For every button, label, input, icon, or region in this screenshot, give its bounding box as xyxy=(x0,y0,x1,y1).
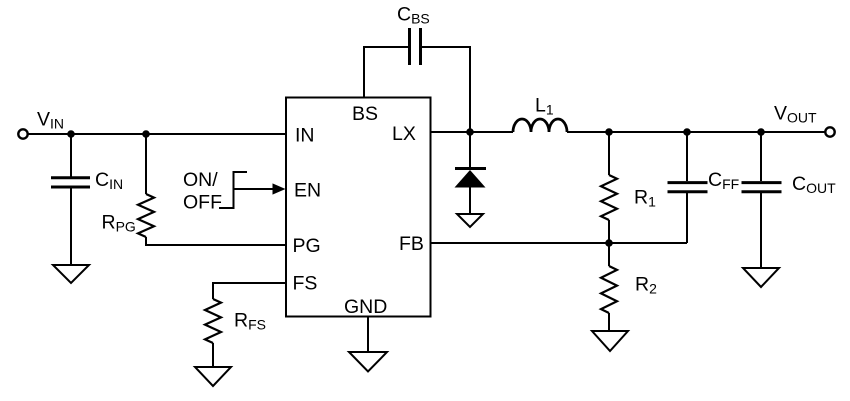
svg-text:BS: BS xyxy=(352,103,378,125)
wire FS pin xyxy=(213,283,286,299)
wire RFS bottom xyxy=(212,343,214,367)
wire GND pin xyxy=(367,317,369,353)
capacitor CBS xyxy=(410,28,421,65)
ground IC xyxy=(349,352,387,372)
svg-text:IN: IN xyxy=(295,125,315,147)
ground diode xyxy=(457,214,483,227)
wire CFF top xyxy=(686,132,688,181)
pin label BS xyxy=(352,103,378,125)
capacitor CIN xyxy=(51,178,90,187)
node COUT junction xyxy=(757,128,765,136)
pin label FS xyxy=(293,273,318,295)
capacitor COUT xyxy=(742,183,782,192)
IC U1 body xyxy=(286,98,431,317)
node FB junction xyxy=(605,239,613,247)
arrow into EN xyxy=(234,183,286,194)
label CBS xyxy=(397,4,430,27)
wire COUT bottom xyxy=(760,193,762,268)
label R2 xyxy=(635,274,657,297)
node input/RPG junction xyxy=(142,130,150,138)
resistor R2 xyxy=(601,266,617,313)
terminal VOUT xyxy=(825,127,834,136)
pin label LX xyxy=(392,123,416,145)
wire LX rail xyxy=(431,131,514,133)
wire R2 bottom xyxy=(608,313,610,331)
svg-text:ON/: ON/ xyxy=(183,169,218,191)
node R1 junction xyxy=(605,128,613,136)
wire output rail xyxy=(567,131,825,133)
wire R2 top xyxy=(608,243,610,266)
label RPG xyxy=(102,212,136,235)
label CFF xyxy=(708,169,739,192)
wire COUT top xyxy=(760,132,762,181)
step symbol xyxy=(219,172,247,208)
node CFF junction xyxy=(683,128,691,136)
node LX junction xyxy=(466,128,474,136)
label L1 xyxy=(535,95,554,118)
wire CIN bottom xyxy=(70,189,72,266)
resistor RPG xyxy=(138,194,154,237)
label R1 xyxy=(634,187,656,210)
ground RFS xyxy=(195,367,231,386)
terminal VIN xyxy=(18,129,27,138)
pin label GND xyxy=(344,296,387,318)
capacitor CFF xyxy=(668,183,708,192)
resistor RFS xyxy=(205,299,221,343)
pin label IN xyxy=(295,125,315,147)
ground COUT xyxy=(743,268,779,287)
wire R1 top xyxy=(608,132,610,175)
pin label PG xyxy=(293,235,321,257)
wire input rail xyxy=(29,133,287,135)
ground CIN xyxy=(53,265,89,283)
wire CIN top xyxy=(70,134,72,177)
wire CFF bottom xyxy=(686,193,688,243)
label VOUT xyxy=(774,103,817,126)
wire diode top xyxy=(469,132,471,167)
ground R2 xyxy=(592,331,628,351)
svg-text:GND: GND xyxy=(344,296,387,318)
pin label FB xyxy=(399,233,424,255)
svg-text:FB: FB xyxy=(399,233,424,255)
node input/CIN junction xyxy=(67,130,75,138)
label RFS xyxy=(234,310,266,333)
label ON/OFF xyxy=(183,169,222,214)
svg-text:LX: LX xyxy=(392,123,416,145)
label VIN xyxy=(37,109,64,132)
wire CBS to LX node xyxy=(422,47,470,132)
wire RPG to PG pin xyxy=(146,237,286,245)
wire R1 bottom xyxy=(608,220,610,243)
pin label EN xyxy=(294,180,321,202)
svg-text:FS: FS xyxy=(293,273,318,295)
diode D1 xyxy=(455,169,487,188)
wire BS to CBS xyxy=(364,47,408,98)
inductor L1 xyxy=(513,119,567,132)
wire FB line xyxy=(431,242,688,244)
wire RPG top xyxy=(145,134,147,194)
svg-text:OFF: OFF xyxy=(183,192,222,214)
label COUT xyxy=(792,173,836,196)
svg-text:EN: EN xyxy=(294,180,321,202)
resistor R1 xyxy=(601,175,617,220)
svg-text:PG: PG xyxy=(293,235,321,257)
label CIN xyxy=(95,169,123,192)
wire diode bottom xyxy=(469,188,471,215)
